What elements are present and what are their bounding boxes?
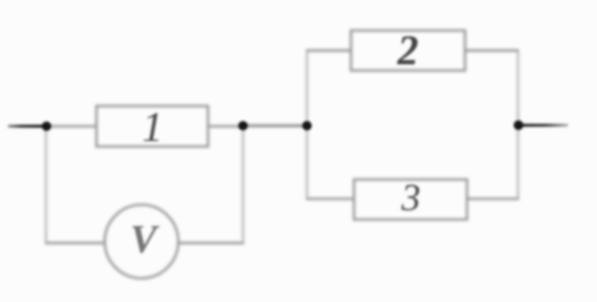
svg-text:3: 3	[401, 177, 421, 219]
svg-text:V: V	[130, 217, 160, 262]
svg-text:2: 2	[397, 29, 419, 75]
svg-text:1: 1	[142, 105, 163, 151]
